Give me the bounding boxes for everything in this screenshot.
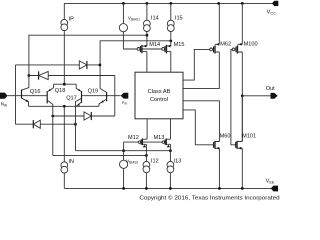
node junction dot M62 on VCC rail	[217, 2, 220, 5]
wire M100 drain to M101 drain	[241, 52, 243, 142]
wire VEE rail	[64, 187, 271, 189]
wire IN tail bus	[29, 105, 100, 107]
transistor Q17 (NPN) emitter	[66, 96, 81, 107]
svg-text:IP: IP	[69, 16, 75, 22]
svg-text:M60: M60	[220, 134, 231, 140]
node junction dot VBIAS2 gate line	[122, 149, 125, 152]
node junction dot I14 bias line	[146, 34, 149, 37]
node junction dot D2 to Q19 collector	[99, 64, 102, 67]
current source I14	[144, 3, 159, 46]
wire diode D3 line	[16, 123, 76, 125]
wire Q16 collector to D4 line and VBIAS2 line	[47, 100, 53, 155]
wire PIN base line	[82, 95, 121, 97]
svg-text:I13: I13	[174, 159, 182, 165]
wire bias line to input stage	[29, 35, 147, 87]
wire right outer loop	[114, 76, 116, 117]
diode D2	[79, 61, 87, 69]
svg-text:M101: M101	[242, 134, 256, 140]
power VCC terminal arrow	[272, 1, 279, 6]
transistor M12 (PMOS)	[128, 119, 147, 162]
node junction dot I15 fold node	[169, 39, 172, 42]
current source I12	[143, 159, 159, 189]
transistor M60 (NMOS)	[214, 134, 231, 189]
svg-text:M14: M14	[149, 42, 160, 48]
wire output line	[242, 95, 270, 97]
transistor Q16 (NPN, left)	[22, 88, 29, 107]
node junction dot M12 source	[145, 154, 148, 157]
svg-text:Q18: Q18	[55, 88, 66, 94]
wire VBIAS1 gate line	[123, 48, 161, 50]
transistor M100 (PMOS)	[232, 3, 257, 53]
node junction dot M60 on VEE rail	[218, 187, 221, 190]
current source IP	[61, 3, 74, 84]
svg-text:M13: M13	[154, 135, 165, 141]
node junction dot I15 on VCC rail	[169, 2, 172, 5]
svg-text:M100: M100	[244, 41, 258, 47]
current source IN	[61, 106, 74, 188]
svg-text:M12: M12	[128, 135, 139, 141]
node junction dot D4 to Q16 collector	[51, 115, 54, 118]
node junction dot D3 line	[74, 123, 77, 126]
svg-text:Q16: Q16	[30, 89, 41, 95]
svg-text:VEE: VEE	[266, 178, 275, 184]
pad NIN input	[0, 93, 8, 108]
svg-text:Q19: Q19	[88, 89, 99, 95]
transistor Q18 (PNP)	[55, 84, 82, 103]
svg-text:Out: Out	[266, 86, 275, 92]
wire M12/M13 gate line from input stage	[76, 150, 171, 152]
svg-text:Class AB: Class AB	[148, 89, 171, 95]
current source I13	[167, 159, 181, 189]
svg-text:I12: I12	[151, 159, 159, 165]
block Class AB Control	[135, 72, 183, 119]
wire diode D4 line	[53, 115, 115, 117]
transistor M13 (PMOS)	[154, 119, 171, 162]
pad Out	[266, 86, 278, 99]
node junction dot output	[241, 94, 244, 97]
wire diode D1 line	[29, 75, 115, 77]
wire IP tail bus	[54, 83, 77, 85]
voltage source VBIAS1	[119, 3, 140, 49]
wire fold node to Q19 collector	[100, 41, 171, 93]
wire M100 gate to M101 gate	[231, 49, 236, 144]
node junction dot M100 on VCC rail	[241, 2, 244, 5]
transistor M62 (PMOS)	[210, 3, 231, 53]
wire box output 2 to M62 drain	[183, 52, 219, 88]
node junction dot I14 on VCC rail	[146, 2, 149, 5]
wire VBIAS2 line to M12 source	[53, 154, 147, 156]
svg-text:Control: Control	[150, 97, 168, 103]
transistor Q19 (NPN)	[88, 89, 107, 107]
transistor M101 (NMOS)	[236, 96, 256, 189]
wire NIN base line	[8, 95, 48, 97]
node junction dot diode D1 left	[28, 74, 31, 77]
node junction dot I13 on VEE rail	[169, 187, 172, 190]
wire VCC rail	[64, 2, 272, 4]
current source I15	[167, 3, 182, 46]
svg-text:VCC: VCC	[267, 9, 277, 15]
svg-text:Copyright © 2016, Texas Instru: Copyright © 2016, Texas Instruments Inco…	[139, 194, 279, 201]
wire box output 4 to M60 gate	[183, 110, 214, 145]
diode D4	[84, 112, 91, 120]
diode D3	[33, 120, 40, 128]
power VEE terminal arrow	[271, 186, 278, 192]
node junction dot VBIAS1 on VCC rail	[122, 2, 125, 5]
node junction dot VBIAS2 on VEE rail	[122, 187, 125, 190]
wire Q18 collector down to M12 gate line	[76, 98, 82, 150]
node junction dot IP bus	[63, 83, 66, 86]
diode D1	[39, 71, 49, 79]
svg-text:M15: M15	[174, 42, 185, 48]
wire diode D2 line (N-input net)	[16, 64, 100, 66]
transistor M14 (PMOS)	[137, 42, 160, 72]
wire M12/M13 gate bar link	[124, 141, 163, 143]
svg-text:IN: IN	[69, 159, 75, 165]
node junction dot M101 on VEE rail	[241, 187, 244, 190]
svg-text:I14: I14	[151, 16, 159, 22]
voltage source VBIAS2	[120, 142, 139, 188]
svg-text:I15: I15	[175, 16, 183, 22]
pad PIN input	[121, 93, 129, 106]
node junction dot M13 source on gate line	[169, 149, 172, 152]
wire left outer loop	[15, 65, 17, 124]
transistor Q16 (PNP)	[30, 84, 54, 103]
node junction dot I12 on VEE rail	[145, 187, 148, 190]
wire box output 3 to M60 drain	[183, 101, 219, 142]
transistor M15 (PMOS)	[162, 42, 185, 72]
node junction dot IN bus	[63, 105, 66, 108]
wire box output 1 to M62 gate	[183, 49, 210, 80]
svg-text:Q17: Q17	[66, 96, 77, 102]
svg-text:M62: M62	[220, 41, 231, 47]
